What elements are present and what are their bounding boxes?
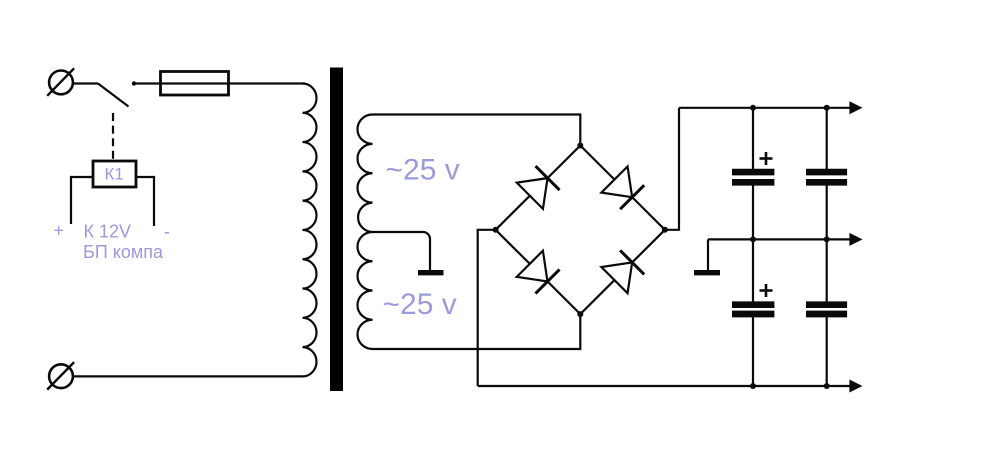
transformer T1 secondary winding lower [358, 232, 373, 349]
diode VD1 (bridge top-left) [517, 166, 560, 209]
terminal X2 (AC input bottom) [47, 362, 74, 390]
wire: relay K1 left pin [71, 177, 93, 224]
dashed link: switch S1 to relay K1 [112, 113, 114, 161]
wire: top output rail (+) [679, 107, 850, 109]
wire: bottom output rail (-) [478, 385, 850, 387]
junction: C4 bottom rail [824, 383, 830, 389]
output arrow (-) [849, 380, 862, 393]
terminal X1 (AC input top) [47, 68, 74, 96]
switch S1 blade [98, 84, 129, 107]
capacitor C1 (electrolytic, top left column) [732, 108, 774, 240]
diode VD4 (bridge bottom-right) [601, 250, 644, 293]
wire: secondary top end to bridge AC node (top) [373, 115, 581, 146]
ground (output common) [694, 270, 720, 275]
label + (C3 polarity) [760, 284, 773, 297]
wire: secondary center tap to ground [373, 232, 431, 270]
junction: C3 bottom rail [750, 383, 756, 389]
svg-text:~25 v: ~25 v [383, 288, 457, 321]
wire: secondary bottom end to bridge AC node (bottom) [373, 314, 581, 349]
junction: C1 middle rail [750, 236, 756, 242]
junction: bridge left node [493, 227, 499, 233]
label + (C1 polarity) [760, 152, 773, 165]
diode VD2 (bridge top-right) [601, 166, 644, 209]
junction: bridge top node [577, 143, 583, 149]
fuse F1 body [161, 72, 229, 96]
wire: bridge minus to bottom rail [478, 230, 496, 386]
transformer T1 core [330, 68, 343, 392]
wire: terminal X2 to primary winding [73, 375, 303, 377]
svg-text:-: - [164, 222, 170, 242]
wire: terminal X1 to switch S1 [73, 82, 98, 84]
capacitor C4 (bottom right column) [806, 239, 847, 386]
wire: relay K1 right pin [136, 177, 154, 226]
junction: bridge bottom node [577, 311, 583, 317]
transformer T1 primary winding [303, 84, 317, 377]
bridge edge wire: top to right [580, 146, 665, 230]
svg-text:К1: К1 [105, 165, 124, 184]
relay K1 coil box [93, 161, 136, 187]
bridge edge wire: right to bottom [580, 230, 665, 314]
junction: bridge right node [662, 227, 668, 233]
wire: bridge plus to top rail [665, 108, 679, 230]
bridge edge wire: left to top [496, 146, 581, 230]
svg-text:БП компа: БП компа [83, 242, 164, 262]
junction: C2 top rail [824, 105, 830, 111]
svg-text:~25 v: ~25 v [386, 153, 460, 186]
output arrow (0) [849, 233, 862, 246]
wire: switch S1 to fuse F1 [134, 82, 160, 84]
capacitor C2 (top right column) [806, 108, 847, 240]
transformer T1 secondary winding upper [357, 115, 372, 233]
diode VD3 (bridge bottom-left) [517, 251, 560, 294]
bridge edge wire: bottom to left [496, 230, 581, 314]
svg-text:К 12V: К 12V [84, 222, 132, 242]
capacitor C3 (electrolytic, bottom left column) [732, 239, 774, 386]
svg-text:+: + [54, 221, 65, 241]
ground (center tap) [418, 270, 444, 275]
wire: middle output rail (0) [708, 238, 850, 240]
junction: C2 middle rail [824, 236, 830, 242]
switch S1 fixed contact [132, 81, 136, 85]
wire: middle rail to output ground [707, 239, 709, 270]
fuse F1 internal wire [160, 82, 305, 84]
output arrow (+) [849, 101, 862, 114]
junction: C1 top rail [750, 105, 756, 111]
